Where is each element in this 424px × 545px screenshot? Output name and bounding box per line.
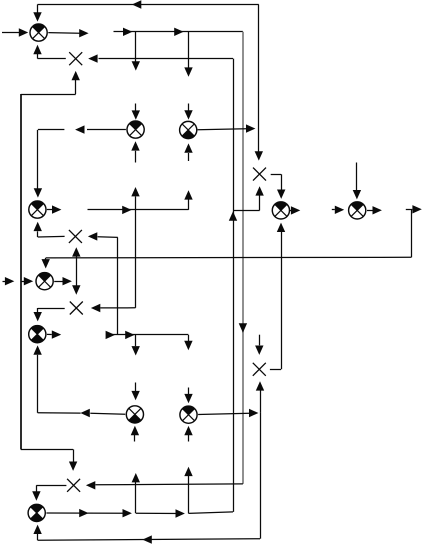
wire middle distribution run with stubs — [88, 187, 193, 214]
wire into M2 from right — [88, 232, 118, 240]
wire S7 output arrow — [54, 277, 72, 285]
wire M3 output into S8 top — [34, 308, 65, 321]
wire input arrow into S6 top — [353, 163, 361, 200]
wire S11 output run with branch stubs — [46, 467, 233, 518]
multiplier M3 — [70, 302, 83, 315]
wire right vertical down to bottom run — [260, 413, 262, 539]
wire branch vertical from S8 output — [117, 237, 119, 334]
wire S1 output arrow — [48, 29, 88, 37]
wire M1 output into S1 bottom — [33, 45, 66, 59]
wire distribution run with branch stubs — [114, 28, 243, 77]
wire M2 output into S4 bottom — [34, 222, 65, 237]
wire vertical branch to M3 input — [91, 210, 136, 312]
summing junction S4 — [29, 201, 46, 218]
wire main input arrows — [3, 277, 34, 285]
wire arrow into M6 bottom — [256, 381, 264, 413]
wire feedback vertical into M5 — [255, 5, 263, 161]
wire long feedback horizontal to S7 top — [42, 209, 412, 268]
summing junction S6 — [349, 202, 366, 219]
wire arrow into S3 top — [184, 104, 192, 120]
wire S3 output arrow into feedback vertical — [198, 124, 256, 132]
wire bottom return run into S11 bottom — [33, 525, 260, 544]
multiplier M4 — [67, 479, 80, 492]
wire arrow into S9 top — [131, 383, 139, 401]
summing junction S5 — [272, 202, 289, 219]
wire stub into M3 top — [72, 258, 80, 295]
wire stub into M6 top — [255, 335, 263, 355]
summing junction S1 — [30, 24, 47, 41]
wire top feedback loop into S1 — [33, 0, 258, 21]
wire gray delay line vertical — [239, 32, 247, 484]
summing junction S3 — [180, 121, 197, 138]
wire arrow into S3 bottom — [184, 143, 192, 161]
wire S4 output arrow — [47, 205, 62, 213]
wire stub into M2 bottom — [72, 247, 80, 258]
wire S8 output arrow — [47, 330, 61, 338]
wire arrow into S6 left — [332, 206, 344, 214]
summing junction S9 — [126, 406, 143, 423]
wire final output arrow — [406, 205, 422, 213]
multiplier M1 — [69, 52, 82, 65]
wire S5 output arrow — [290, 206, 301, 214]
wire M5 output into S5 top — [271, 174, 286, 199]
summing junction S7 — [36, 273, 53, 290]
wire input arrow into S1 — [2, 28, 28, 36]
wire arrow into S10 bottom — [184, 426, 192, 442]
multiplier M6 — [253, 363, 266, 376]
wire into M1 from right — [88, 54, 233, 62]
summing junction S11 — [28, 504, 45, 521]
wire lower distribution run with stubs — [106, 331, 193, 356]
summing junction S2 — [127, 121, 144, 138]
wire arrow into S10 top — [184, 388, 192, 404]
wire arrow into S9 bottom — [131, 426, 139, 442]
wire S10 output arrow into right vertical — [198, 409, 258, 417]
wire big return vertical with branch to M5 — [229, 59, 264, 512]
multiplier M2 — [69, 230, 82, 243]
wire S6 output arrow — [367, 206, 382, 214]
wire S2 output to S4 top — [34, 125, 126, 197]
wire long left vertical — [20, 94, 22, 449]
wire M4 output into S11 top — [32, 485, 66, 500]
summing junction S10 — [180, 406, 197, 423]
wire into M4 from right — [86, 481, 243, 489]
summing junction S8 — [29, 326, 46, 343]
wire arrow into S2 top — [132, 104, 140, 120]
wire into M4 top from left vertical — [21, 449, 78, 471]
wire arrow into S2 bottom — [131, 141, 139, 162]
wire S9 output into S8 bottom — [33, 345, 125, 417]
multiplier M5 — [253, 168, 266, 181]
wire M1 bottom feed from left vertical — [21, 71, 80, 95]
wire X6 output up into S5 bottom — [270, 223, 285, 370]
